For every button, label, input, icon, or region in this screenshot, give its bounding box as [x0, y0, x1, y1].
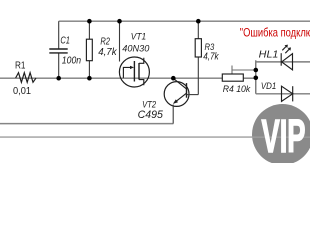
wire top rail: [59, 20, 310, 22]
svg-text:40N30: 40N30: [122, 44, 150, 54]
transistor VT2: [164, 78, 198, 123]
resistor R3: [197, 21, 199, 94]
wire bottom rail: [0, 136, 310, 138]
wire R4 wiper tap: [232, 66, 256, 75]
resistor R2: [88, 21, 90, 78]
svg-text:4,7k: 4,7k: [203, 51, 219, 62]
node junction dots: [56, 19, 258, 81]
wire main rail left: [0, 77, 222, 79]
resistor R1: [16, 73, 36, 83]
capacitor C1: [58, 21, 60, 49]
resistor R4 (trimmer): [222, 74, 243, 81]
svg-text:R1: R1: [15, 60, 26, 71]
svg-text:HL1: HL1: [259, 50, 279, 61]
svg-text:4,7k: 4,7k: [98, 46, 117, 58]
svg-text:C495: C495: [138, 109, 163, 121]
wire node vertical HL1/VD1: [255, 60, 257, 94]
led HL1: [281, 45, 292, 70]
wire main rail right of R4: [243, 77, 256, 79]
wire sense line: [0, 123, 173, 125]
svg-text:VT2: VT2: [142, 99, 156, 109]
svg-text:"Ошибка подклю: "Ошибка подклю: [240, 26, 310, 40]
svg-text:VD1: VD1: [261, 81, 276, 91]
svg-text:VT1: VT1: [131, 31, 146, 41]
svg-text:R4 10k: R4 10k: [223, 84, 252, 95]
wire HL1 branch: [256, 61, 310, 63]
svg-text:100n: 100n: [62, 56, 81, 67]
diode VD1: [282, 86, 293, 101]
svg-text:0,01: 0,01: [13, 86, 31, 97]
watermark VIP: [252, 104, 313, 165]
mosfet VT1: [119, 21, 149, 87]
svg-text:C1: C1: [60, 36, 70, 47]
wire VD1 branch: [256, 93, 310, 95]
svg-text:VIP: VIP: [262, 110, 306, 162]
